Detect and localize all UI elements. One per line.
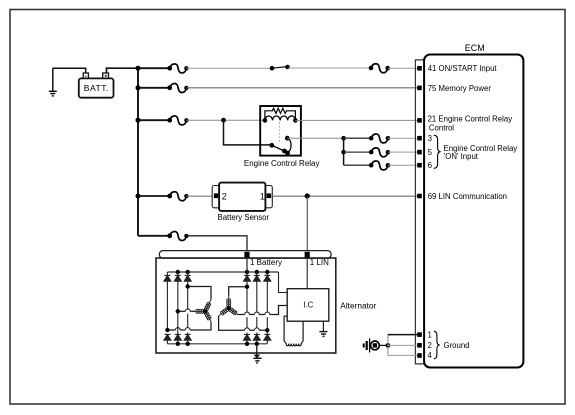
stator winding W1 (left wye) bbox=[167, 287, 211, 331]
wire battery positive to bus bbox=[107, 68, 139, 73]
diode D1 top bbox=[164, 272, 171, 330]
wire row1 to ECM pin 41 bbox=[388, 67, 418, 69]
wire sensor to ECM pin 69 bbox=[271, 195, 417, 197]
svg-text:Battery Sensor: Battery Sensor bbox=[218, 213, 270, 222]
wire row3 bus to fuse bbox=[138, 119, 170, 121]
ground bolt G4 bbox=[363, 338, 380, 352]
wire row5 to alternator battery pin bbox=[186, 236, 247, 252]
pin 2 bbox=[417, 343, 422, 348]
diode D10 bottom bbox=[244, 334, 251, 343]
wire stubs to fuses bbox=[344, 137, 372, 139]
wire row2 bus to fuse bbox=[138, 87, 170, 89]
diode D3 top bbox=[184, 272, 191, 334]
node bottom-bus junctions bbox=[176, 342, 180, 346]
wire to pin 4 bbox=[388, 354, 417, 356]
wire branch to relay switch bbox=[224, 120, 272, 145]
svg-text:69 LIN Communication: 69 LIN Communication bbox=[428, 192, 507, 201]
diode D7 bottom bbox=[164, 334, 171, 343]
wire relay switch out bbox=[287, 137, 343, 139]
ground G2 (alternator case) bbox=[253, 344, 261, 364]
node W1 star bbox=[203, 309, 207, 313]
regulator IC box bbox=[287, 289, 329, 322]
pin 41 bbox=[417, 66, 422, 71]
node W1-D3 phase bbox=[186, 284, 190, 288]
brace pins 1-2-4 bbox=[434, 331, 440, 359]
node W1-D2 phase bbox=[176, 309, 180, 313]
fuse F3 bbox=[170, 84, 187, 93]
relay U1 box (Engine Control Relay) bbox=[260, 106, 301, 156]
connector pin LIN bbox=[305, 252, 310, 258]
alternator box bbox=[156, 258, 336, 353]
svg-text:Alternator: Alternator bbox=[340, 301, 376, 311]
wire row1 bus to fuse bbox=[138, 67, 170, 69]
bus wire (main B+ vertical) bbox=[137, 68, 139, 236]
ground G1 (battery ground) bbox=[49, 68, 57, 96]
fuse F1 bbox=[170, 64, 187, 73]
diode D2 top bbox=[174, 272, 181, 334]
node W1-D1 phase bbox=[165, 328, 169, 332]
fuse F7 bbox=[371, 161, 388, 170]
node J3 bbox=[341, 150, 346, 155]
svg-text:1 Battery: 1 Battery bbox=[250, 258, 282, 267]
W2 coil arm to phase sense bbox=[229, 308, 238, 314]
pin 21 bbox=[417, 118, 422, 123]
diode D4 top bbox=[244, 272, 251, 334]
ECM connector strip bbox=[415, 60, 424, 364]
node J1 (relay feed split) bbox=[221, 118, 226, 123]
wire LIN pin riser to IC bbox=[306, 258, 308, 289]
diode D5 top bbox=[253, 272, 260, 334]
W1 coil arm to phase V bbox=[195, 310, 205, 312]
svg-text:1: 1 bbox=[260, 192, 265, 202]
wire W1 phase V to D2 bbox=[190, 310, 195, 312]
node bus-row1 bbox=[136, 66, 141, 71]
wire battery negative to ground bbox=[53, 68, 86, 73]
battery sensor U2 bbox=[212, 183, 272, 223]
node bus-row4 bbox=[136, 194, 141, 199]
wire W2 phase U to D4 bbox=[229, 287, 247, 296]
node W2-D4 phase bbox=[245, 285, 249, 289]
pin 6 bbox=[417, 163, 422, 168]
wire phase sense to IC bbox=[270, 306, 288, 315]
node bus-row3 bbox=[136, 118, 141, 123]
pin 1 bbox=[417, 332, 422, 337]
battery BATT. bbox=[79, 73, 114, 98]
diode D11 bottom bbox=[253, 334, 260, 343]
fuse F9 bbox=[170, 232, 187, 241]
svg-text:Control: Control bbox=[429, 123, 454, 132]
wire row1 fuse to ignition switch bbox=[186, 67, 272, 69]
node bus-row2 bbox=[136, 85, 141, 90]
wire row5 bus corner to fuse bbox=[138, 235, 170, 237]
diode D12 bottom bbox=[264, 334, 271, 343]
diode D6 top bbox=[264, 272, 271, 334]
svg-text:75 Memory Power: 75 Memory Power bbox=[428, 84, 492, 93]
svg-text:Ground: Ground bbox=[444, 341, 470, 350]
resistor R1 (relay) bbox=[265, 108, 296, 120]
ALT bottom bus bbox=[167, 343, 267, 345]
pin 75 bbox=[417, 86, 422, 91]
wire W1 phase W to D1 bbox=[190, 322, 211, 330]
pin 1 (battery sensor) bbox=[267, 193, 272, 198]
fuse F4 bbox=[170, 116, 187, 125]
svg-text:21 Engine Control Relay: 21 Engine Control Relay bbox=[428, 115, 513, 124]
node W2 star bbox=[227, 306, 231, 310]
wire B+ riser to IC bbox=[279, 272, 288, 293]
coil L2 (relay coil) bbox=[265, 116, 296, 120]
wire row1 switch to fuse F2 bbox=[288, 67, 372, 69]
svg-text:6: 6 bbox=[428, 161, 432, 170]
pin 3 bbox=[417, 136, 422, 141]
svg-text:I.C: I.C bbox=[303, 300, 313, 309]
fuse F8 bbox=[170, 192, 187, 201]
wire W1 phase U to D3 bbox=[188, 287, 211, 300]
fuse F5 bbox=[371, 134, 388, 143]
wire relay coil to ECM pin 21 bbox=[295, 119, 417, 121]
W1 coil arm to phase U bbox=[205, 300, 211, 312]
wire row4 bus to fuse bbox=[138, 195, 170, 197]
node W2-D6 phase bbox=[265, 328, 269, 332]
wire row3 fuse to relay coil bbox=[186, 119, 265, 121]
svg-text:Engine Control Relay: Engine Control Relay bbox=[244, 159, 320, 168]
wire hop marks left group bbox=[175, 309, 190, 330]
svg-text:1 LIN: 1 LIN bbox=[310, 258, 329, 267]
wire row2 to ECM pin 75 bbox=[186, 87, 417, 89]
wire to pin 2 bbox=[388, 344, 417, 346]
brace pins 3-5-6 bbox=[434, 135, 441, 168]
diode D8 bottom bbox=[174, 334, 181, 343]
svg-text:1: 1 bbox=[428, 330, 432, 339]
svg-text:5: 5 bbox=[428, 148, 433, 157]
switch SW1 (ignition ON/START) bbox=[272, 67, 288, 69]
pin 2 (battery sensor) bbox=[214, 193, 219, 198]
connector pin battery bbox=[244, 252, 249, 258]
svg-text:BATT.: BATT. bbox=[84, 83, 109, 93]
wire bolt to node bbox=[379, 344, 388, 346]
pin 5 bbox=[417, 150, 422, 155]
wire vertical to rows 5,6 bbox=[343, 138, 345, 165]
svg-text:41 ON/START Input: 41 ON/START Input bbox=[428, 64, 498, 73]
svg-text:ECM: ECM bbox=[465, 43, 485, 53]
svg-text:4: 4 bbox=[428, 351, 433, 360]
wires to ECM pins 3,5,6 bbox=[388, 137, 417, 139]
W2 coil arm to phase U bbox=[228, 296, 230, 308]
wire hop marks right group bbox=[245, 312, 270, 330]
svg-text:3: 3 bbox=[428, 134, 432, 143]
node J5 bbox=[386, 343, 391, 348]
svg-text:'ON' Input: 'ON' Input bbox=[444, 152, 479, 161]
node J2 bbox=[341, 136, 346, 141]
diode D9 bottom bbox=[184, 334, 191, 343]
field coil L1 (rotor) bbox=[284, 316, 303, 346]
W1 coil arm to phase W bbox=[205, 311, 211, 321]
alternator connector strip bbox=[159, 251, 331, 259]
wire to pin 1 bbox=[388, 334, 417, 336]
fuse F2 bbox=[371, 64, 388, 73]
stator winding W2 (right wye) bbox=[219, 287, 288, 331]
node top-bus junctions bbox=[176, 270, 180, 274]
ALT top bus bbox=[167, 271, 278, 273]
node J4 (LIN branch) bbox=[305, 193, 310, 198]
svg-text:2: 2 bbox=[222, 192, 227, 202]
wire LIN riser to alternator bbox=[306, 196, 308, 252]
wire battery pin riser bbox=[246, 258, 248, 272]
W2 coil arm to phase V bbox=[219, 308, 229, 316]
fuse F6 bbox=[371, 148, 388, 157]
pin 69 bbox=[417, 194, 422, 199]
svg-text:2: 2 bbox=[428, 341, 432, 350]
wire ground vertical bbox=[387, 335, 389, 356]
wire fuse to battery sensor bbox=[186, 195, 214, 197]
pin 4 bbox=[417, 353, 422, 358]
ECM box bbox=[424, 55, 523, 368]
armature dashed link bbox=[278, 122, 280, 144]
relay switch contact bbox=[272, 145, 285, 151]
ground G3 (IC ground) bbox=[319, 321, 327, 336]
